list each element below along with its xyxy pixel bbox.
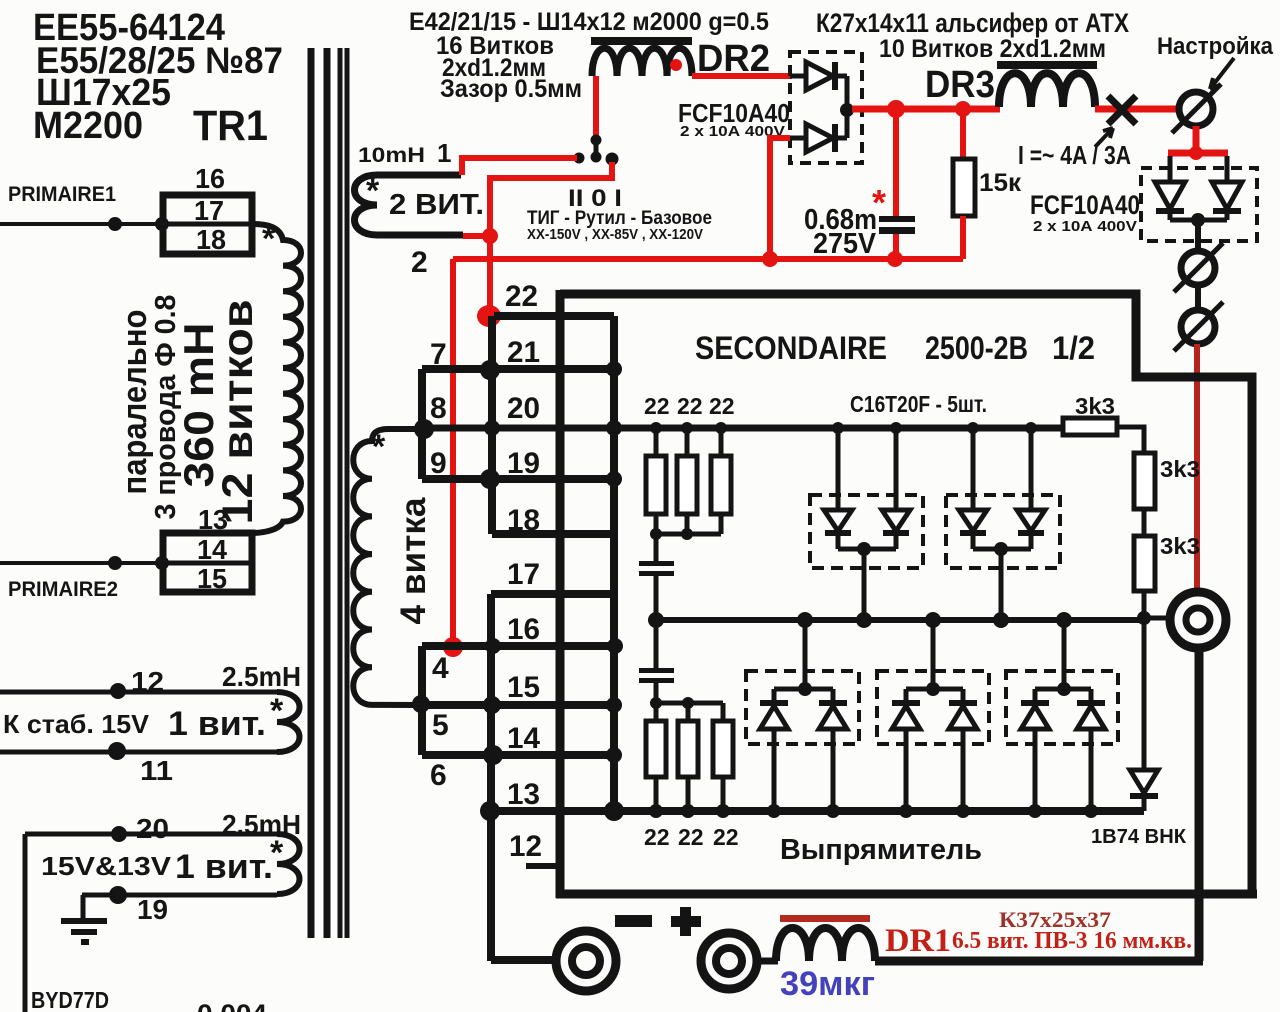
- svg-text:14: 14: [197, 534, 227, 565]
- primary winding 12 витков: [252, 224, 301, 533]
- aux winding К стаб. 15V: [277, 692, 300, 752]
- thyristor T1b: [882, 428, 910, 549]
- left rail upper: [488, 316, 496, 534]
- thyristor T4a: [892, 703, 920, 811]
- red node on pin4 row: [443, 637, 463, 657]
- svg-text:Выпрямитель: Выпрямитель: [780, 834, 982, 866]
- resistor 22 group A taps: [656, 428, 721, 456]
- svg-text:1В74 ВНК: 1В74 ВНК: [1091, 826, 1187, 848]
- svg-text:*: *: [262, 220, 276, 258]
- node T5 on mid bus: [1056, 612, 1072, 628]
- resistor 22 B2: [678, 721, 698, 777]
- minus sign: [615, 915, 652, 927]
- red wire 15k upper: [960, 109, 966, 160]
- wire mid bus down to T3: [774, 620, 833, 703]
- resistor 15к: [953, 159, 975, 216]
- svg-text:TR1: TR1: [193, 102, 268, 150]
- red wire diode output to DR3: [852, 106, 1000, 113]
- svg-text:DR3: DR3: [925, 64, 995, 106]
- thyristor box T2 dashed: [946, 495, 1060, 568]
- svg-text:3k3: 3k3: [1075, 393, 1115, 419]
- wire circle2 to circle3: [1195, 285, 1201, 310]
- red wire circle3 down to output terminal: [1194, 344, 1200, 591]
- svg-text:*: *: [872, 182, 886, 223]
- svg-text:22: 22: [644, 393, 670, 419]
- choke DR1 coil: [776, 928, 875, 961]
- svg-text:22: 22: [505, 280, 538, 313]
- node cap chain on mid bus: [648, 612, 664, 628]
- thyristor T5b: [1077, 703, 1105, 811]
- connector circle 1: [1172, 84, 1221, 133]
- junction dots 22A bottoms: [650, 528, 662, 540]
- svg-text:22: 22: [678, 824, 704, 850]
- resistor 3k3 vertical 1: [1134, 453, 1155, 509]
- red bus y259: [453, 256, 963, 262]
- row 19 / pin9: [422, 475, 614, 483]
- svg-text:1 вит.: 1 вит.: [175, 848, 273, 886]
- svg-text:9: 9: [430, 447, 447, 480]
- svg-text:20: 20: [136, 813, 169, 844]
- svg-text:19: 19: [507, 447, 540, 480]
- thyristor T3b: [819, 703, 847, 811]
- wire cap C1 to mid bus: [654, 576, 659, 620]
- svg-text:17: 17: [194, 195, 224, 226]
- svg-text:SECONDAIRE: SECONDAIRE: [695, 330, 887, 366]
- wire to BYD77D: [23, 834, 28, 1012]
- svg-text:2 ВИТ.: 2 ВИТ.: [389, 189, 484, 221]
- resistor 22 A3: [711, 456, 731, 514]
- node T2 on mid bus: [993, 612, 1009, 628]
- diode D1 upper: [790, 62, 847, 90]
- row 22: [494, 312, 614, 320]
- row 15 / pin5: [421, 701, 614, 709]
- junction dot pin20 wire: [111, 826, 127, 842]
- thyristor T2b: [1017, 428, 1045, 549]
- wire pin19: [82, 893, 277, 898]
- svg-text:15к: 15к: [979, 169, 1021, 197]
- node T1 join: [857, 542, 871, 556]
- row 21 / pin7: [422, 365, 614, 373]
- svg-text:*: *: [270, 692, 284, 730]
- junction dots bottom bus: [649, 804, 1098, 818]
- connector circle 3: [1174, 302, 1223, 351]
- thyristor T4b: [949, 703, 977, 811]
- svg-text:39мкг: 39мкг: [780, 965, 875, 1003]
- wire node to output terminal: [1144, 616, 1170, 621]
- connector circle 2: [1174, 243, 1223, 292]
- svg-text:6: 6: [430, 759, 447, 792]
- T2 cathode join wire: [973, 549, 1031, 620]
- capacitor C1 plates: [639, 561, 674, 566]
- wire output terminal down: [1195, 648, 1204, 961]
- wire joining diode cathodes: [845, 76, 850, 138]
- svg-text:12 витков: 12 витков: [214, 300, 262, 525]
- diode D3 left: [1155, 156, 1185, 220]
- node T2 join: [994, 542, 1008, 556]
- red wire switch position I down to node: [490, 162, 612, 236]
- plus sign: [671, 916, 701, 927]
- left rail lower: [487, 594, 495, 961]
- wire mid bus down to T5: [1035, 620, 1091, 703]
- svg-text:4 витка: 4 витка: [394, 497, 433, 625]
- svg-text:2 х 10А 400V: 2 х 10А 400V: [1033, 218, 1137, 235]
- svg-text:0.004: 0.004: [197, 999, 267, 1012]
- choke DR3 core bar: [997, 61, 1097, 69]
- red node 15k branch: [955, 101, 971, 117]
- red wire DR2 to diode module: [692, 73, 792, 79]
- wire pin11: [0, 750, 277, 755]
- svg-text:паралельно: паралельно: [116, 310, 154, 495]
- row 14 / pin6: [422, 751, 614, 759]
- wire ladder rail to minus terminal: [491, 956, 558, 964]
- red node pin2: [482, 228, 498, 244]
- svg-text:15: 15: [197, 563, 227, 594]
- row 12 stub: [526, 863, 560, 869]
- svg-text:К27х14х11 альсифер от АТХ: К27х14х11 альсифер от АТХ: [816, 8, 1129, 38]
- svg-text:BYD77D: BYD77D: [31, 987, 109, 1012]
- svg-text:FCF10A40: FCF10A40: [1030, 190, 1140, 220]
- capacitor C2 plates: [639, 668, 674, 673]
- resistor 22 B3: [713, 721, 733, 777]
- wires below 22 group A: [656, 514, 721, 561]
- node T3 on mid bus: [797, 612, 813, 628]
- svg-text:10mH: 10mH: [358, 144, 425, 167]
- svg-text:15V&13V: 15V&13V: [41, 851, 172, 881]
- node right module output: [1191, 213, 1205, 227]
- svg-text:XX-150V , XX-85V , XX-120V: XX-150V , XX-85V , XX-120V: [527, 227, 703, 243]
- T1 cathode join wire: [838, 549, 896, 620]
- red wire switch position II to winding pin 1: [462, 158, 577, 175]
- node diode output: [840, 103, 854, 117]
- thyristor T5a: [1021, 703, 1049, 811]
- wire pin20: [25, 832, 277, 837]
- wire 3k3 chain to mid bus node: [1142, 591, 1147, 620]
- svg-text:2: 2: [411, 246, 428, 279]
- red wire capacitor branch lower: [893, 234, 899, 259]
- svg-text:6.5 вит. ПВ-3 16 мм.кв.: 6.5 вит. ПВ-3 16 мм.кв.: [952, 928, 1192, 954]
- svg-text:11: 11: [140, 755, 173, 786]
- inner rail: [610, 316, 618, 811]
- row 13 / bottom bus: [489, 807, 1144, 815]
- minus terminal circle: [556, 931, 616, 991]
- svg-text:C16T20F - 5шт.: C16T20F - 5шт.: [850, 391, 987, 417]
- svg-text:21: 21: [507, 336, 540, 369]
- pin box 4/5/6 left rail: [418, 646, 426, 755]
- svg-text:7: 7: [430, 338, 447, 371]
- thyristor box T4 dashed lower: [877, 671, 989, 744]
- svg-text:DR1: DR1: [885, 923, 951, 959]
- output terminal double circle: [1170, 592, 1226, 648]
- row 18: [492, 530, 614, 538]
- svg-text:PRIMAIRE1: PRIMAIRE1: [8, 183, 116, 206]
- row 16 / pin4: [422, 642, 614, 650]
- thyristor box T1 dashed: [810, 495, 923, 568]
- pin box 13/14/15: [163, 533, 252, 592]
- pin box 7/8/9 left rail: [418, 369, 426, 479]
- red node tee: [1189, 146, 1203, 160]
- choke DR2 coil: [592, 48, 692, 76]
- svg-text:I =~ 4A / 3A: I =~ 4A / 3A: [1018, 140, 1131, 170]
- thyristor T3a: [760, 703, 788, 811]
- red wire 15k lower: [960, 216, 966, 259]
- choke DR1 red core bar: [780, 915, 870, 922]
- thyristor T1a: [824, 428, 852, 549]
- red wire DR3 to X mark: [1095, 106, 1180, 113]
- junction dot pin12 wire: [110, 683, 126, 699]
- red wire D2 anode to bus y259: [770, 138, 790, 256]
- switch II 0 I common dot: [591, 135, 602, 146]
- red node capacitor branch: [887, 100, 905, 118]
- svg-text:8: 8: [430, 392, 447, 425]
- svg-text:Зазор 0.5мм: Зазор 0.5мм: [440, 75, 582, 103]
- red node capacitor bottom: [887, 251, 903, 267]
- svg-text:1: 1: [437, 138, 451, 168]
- dual diode module FCF10A40 dashed box: [790, 52, 862, 163]
- red node 22: [477, 305, 501, 327]
- svg-text:*: *: [366, 172, 380, 210]
- node T5 join: [1057, 682, 1071, 696]
- wire DR1 to output vertical: [875, 957, 1203, 966]
- red dot in DR2 coil: [670, 59, 682, 71]
- row 17: [491, 590, 614, 598]
- wire joining cathodes right module: [1170, 218, 1227, 223]
- svg-text:*: *: [372, 428, 386, 466]
- node T3 join: [798, 682, 812, 696]
- junction dots top bus: [650, 422, 1037, 434]
- wire 3k3h to vertical chain: [1117, 427, 1144, 453]
- wire mid bus to cap C2: [654, 620, 659, 668]
- red wire winding pin 2 to node: [463, 233, 488, 239]
- wire mid bus down to T4: [906, 620, 963, 703]
- capacitor 0.68m plates: [879, 216, 915, 222]
- resistor 22 B1: [646, 721, 666, 777]
- X break mark: [1108, 96, 1136, 124]
- svg-text:М2200: М2200: [33, 105, 143, 147]
- node T4 on mid bus: [925, 612, 941, 628]
- svg-text:16: 16: [195, 163, 225, 194]
- SECONDAIRE box outline: [556, 290, 1257, 898]
- wires above 22 group B: [656, 703, 723, 721]
- svg-text:22: 22: [713, 824, 739, 850]
- diode D4 right: [1212, 156, 1242, 220]
- svg-text:4: 4: [432, 652, 449, 685]
- svg-text:14: 14: [507, 722, 540, 755]
- red wire node down to node 22: [487, 236, 493, 316]
- svg-text:18: 18: [507, 504, 540, 537]
- svg-text:16: 16: [507, 613, 540, 646]
- ladder rails: [421, 316, 1144, 961]
- svg-text:12: 12: [509, 830, 542, 863]
- diode D2 lower: [790, 124, 847, 152]
- wire plus terminal to DR1: [757, 958, 778, 965]
- svg-text:PRIMAIRE2: PRIMAIRE2: [8, 578, 118, 601]
- junction dots on PRIMAIRE1 wire: [108, 217, 122, 231]
- svg-text:15: 15: [507, 671, 540, 704]
- wire PRIMAIRE2: [0, 561, 163, 565]
- svg-text:1/2: 1/2: [1052, 330, 1095, 366]
- wire module to circle2: [1195, 220, 1201, 251]
- wire pin12: [0, 690, 277, 695]
- svg-text:19: 19: [137, 894, 168, 925]
- transformer TR1 core: [311, 48, 347, 938]
- svg-text:17: 17: [507, 558, 540, 591]
- choke DR3 coil: [999, 73, 1095, 107]
- choke DR2 core bar: [591, 37, 692, 45]
- red wire DR2 left to switch common: [593, 76, 599, 136]
- resistor 3k3 vertical 2: [1134, 536, 1155, 591]
- resistor 22 A1: [646, 456, 666, 514]
- svg-text:*: *: [270, 834, 284, 872]
- node T1 on mid bus: [856, 612, 872, 628]
- svg-text:13: 13: [507, 778, 540, 811]
- secondary winding 4 витка: [353, 429, 424, 705]
- svg-text:22: 22: [677, 393, 703, 419]
- svg-text:20: 20: [507, 392, 540, 425]
- svg-text:2.5mH: 2.5mH: [222, 661, 301, 692]
- svg-text:5: 5: [432, 709, 449, 742]
- aux winding 15V&13V: [277, 834, 300, 894]
- svg-text:22: 22: [644, 824, 670, 850]
- svg-text:22: 22: [709, 393, 735, 419]
- junction dots 22B tops: [650, 697, 662, 709]
- resistor 22 A2: [677, 456, 697, 514]
- red node bus y259 left: [762, 251, 778, 267]
- junction dots on PRIMAIRE2 wire: [108, 556, 122, 570]
- svg-text:Настройка: Настройка: [1157, 33, 1274, 60]
- switch contact dots: [574, 153, 585, 164]
- pin box 16/17/18: [163, 195, 252, 254]
- red tee wire: [1168, 150, 1228, 157]
- svg-text:3k3: 3k3: [1160, 533, 1200, 559]
- plus terminal circle: [701, 933, 757, 989]
- thyristor box T3 dashed lower: [746, 671, 859, 744]
- arrow Настройка: [1210, 58, 1234, 89]
- svg-text:3k3: 3k3: [1160, 456, 1200, 482]
- wire node down to diode 1B74: [1142, 618, 1147, 770]
- svg-text:10 Витков 2хd1.2мм: 10 Витков 2хd1.2мм: [879, 35, 1106, 63]
- thyristor box T5 dashed lower: [1006, 671, 1118, 744]
- arrow I=4A/3A: [1095, 128, 1113, 147]
- svg-text:18: 18: [196, 224, 226, 255]
- thyristor T2a: [959, 428, 987, 549]
- wire PRIMAIRE1: [0, 222, 162, 226]
- svg-text:275V: 275V: [813, 228, 877, 260]
- svg-text:ТИГ - Рутил - Базовое: ТИГ - Рутил - Базовое: [527, 208, 712, 229]
- svg-text:2500-2В: 2500-2В: [925, 330, 1028, 366]
- junction dots ladder: [412, 360, 624, 821]
- node T4 join: [926, 682, 940, 696]
- wires below 22 group B: [656, 777, 723, 811]
- winding 2 вит. (10mH): [355, 175, 464, 235]
- svg-text:К стаб. 15V: К стаб. 15V: [3, 709, 150, 739]
- red wire down to pin4 row: [450, 259, 456, 643]
- dual diode module FCF10A40 right dashed box: [1141, 168, 1257, 241]
- junction dot pin19 wire: [109, 886, 127, 904]
- ground: [61, 895, 107, 942]
- red wire circle1 down: [1193, 126, 1200, 153]
- svg-text:1 вит.: 1 вит.: [168, 705, 266, 743]
- red wire capacitor branch upper: [893, 109, 899, 216]
- mid bus: [656, 617, 1144, 623]
- junction dot pin11 wire: [108, 742, 126, 760]
- resistor 3k3 horizontal: [1063, 418, 1117, 435]
- diode 1В74 ВНК: [1130, 770, 1158, 811]
- wire between 3k3 resistors: [1142, 509, 1147, 536]
- node mid bus right end: [1137, 611, 1151, 625]
- row 20 / pin8 main bus: [424, 425, 1065, 432]
- wire cap C2 to resistor row: [654, 683, 659, 703]
